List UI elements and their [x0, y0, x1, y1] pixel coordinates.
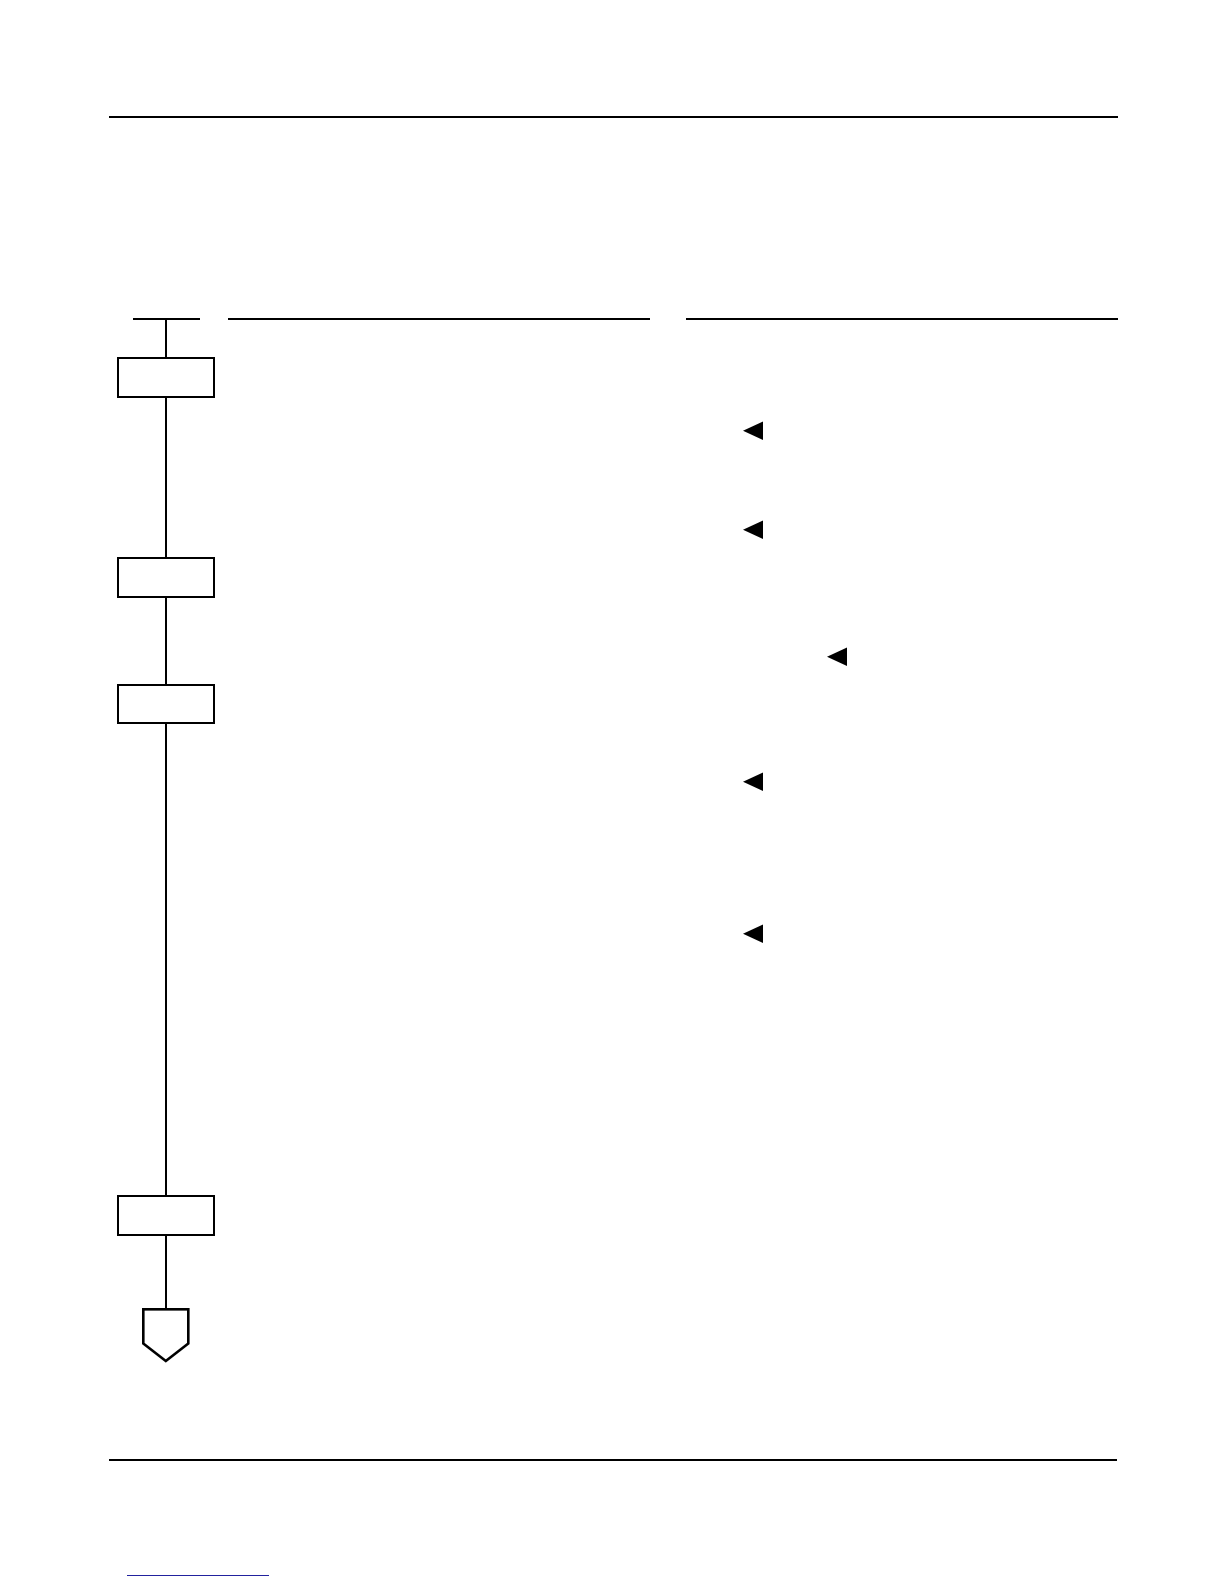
revision marker triangle 5 [741, 923, 765, 945]
flow column header bar (T-bar) [133, 318, 201, 320]
flowchart box 3 [117, 684, 215, 724]
wire: box 2 to box 3 [165, 598, 168, 685]
middle column header rule [228, 318, 650, 320]
revision marker triangle 2 [741, 519, 765, 541]
wire: stem from header bar to box 1 [165, 318, 168, 359]
wire: box 4 to off-page connector [165, 1235, 168, 1309]
footnote link underline [127, 1575, 270, 1577]
revision marker triangle 1 [741, 420, 765, 442]
revision marker triangle 4 [741, 771, 765, 793]
wire: box 3 to box 4 [165, 723, 168, 1196]
wire: box 1 to box 2 [165, 398, 168, 558]
flowchart box 4 [117, 1195, 215, 1236]
flowchart box 2 [117, 557, 215, 598]
top header rule [109, 116, 1118, 118]
off-page connector (pentagon) [138, 1304, 194, 1366]
flowchart box 1 [117, 357, 215, 398]
footer rule [109, 1459, 1117, 1461]
right column header rule [686, 318, 1118, 320]
revision marker triangle 3 [825, 646, 849, 668]
